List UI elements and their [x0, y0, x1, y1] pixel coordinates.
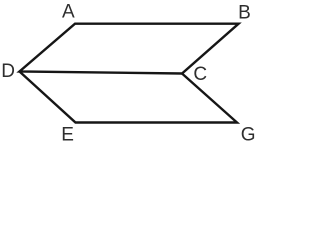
svg-text:C: C	[193, 64, 207, 85]
svg-text:G: G	[241, 125, 256, 146]
svg-text:E: E	[61, 124, 74, 145]
svg-text:B: B	[238, 3, 251, 24]
svg-text:D: D	[1, 61, 15, 82]
svg-text:A: A	[62, 2, 75, 23]
